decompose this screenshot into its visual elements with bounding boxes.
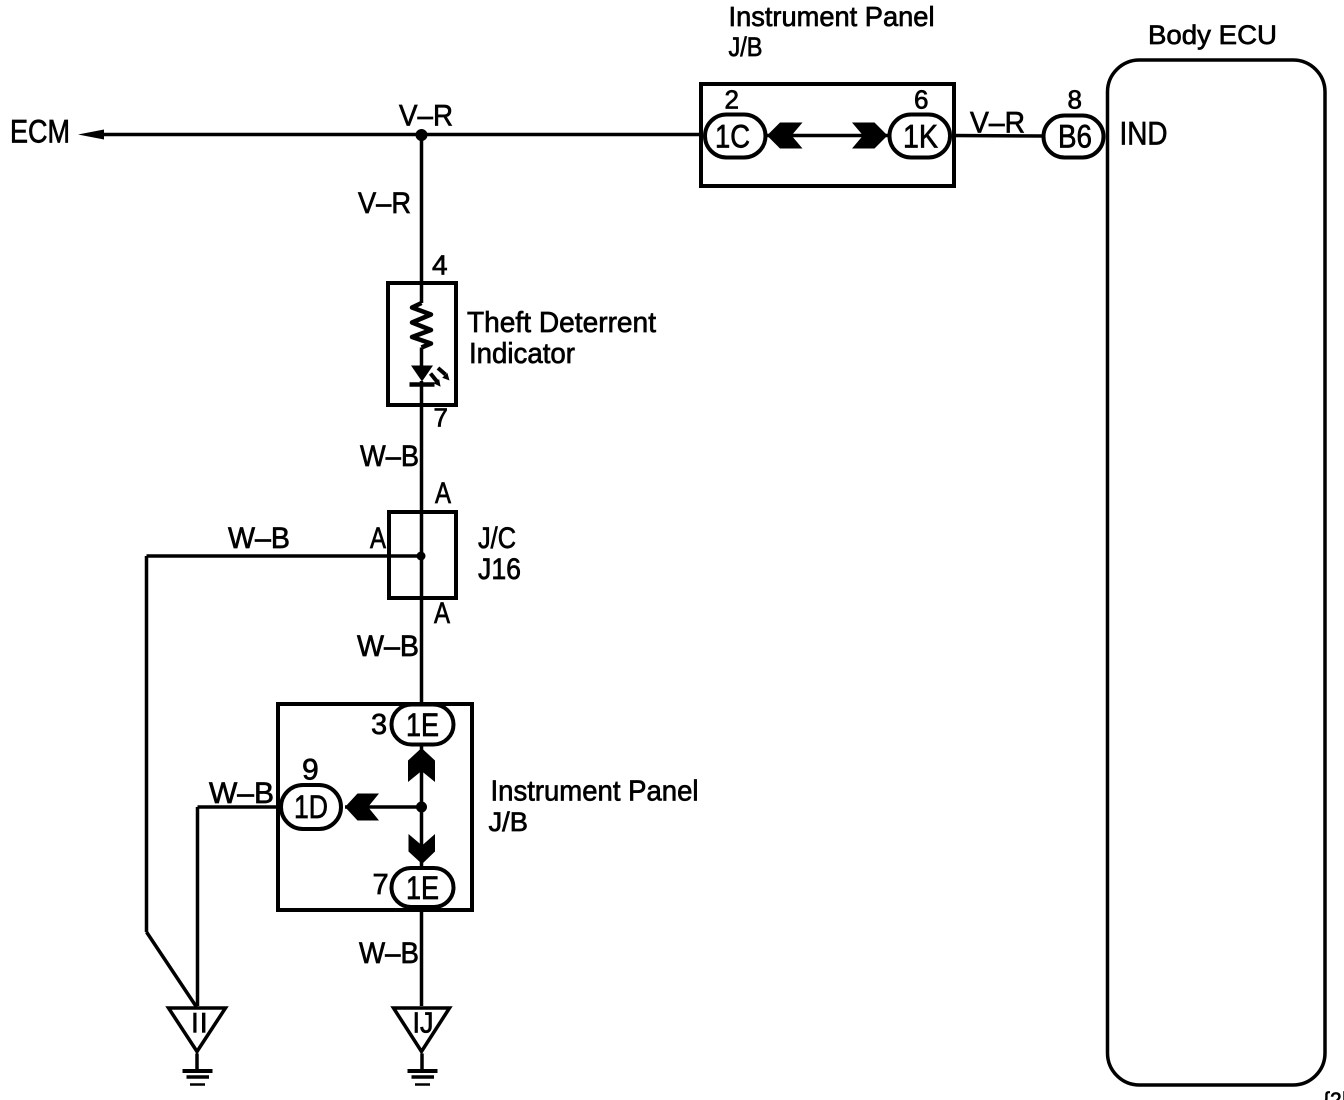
ground IJ bars (408, 1069, 438, 1073)
svg-text:Instrument Panel: Instrument Panel (729, 1, 935, 32)
wire arrow to junction (345, 805, 422, 809)
ECM arrowhead (78, 130, 104, 140)
svg-text:8: 8 (1068, 85, 1082, 115)
svg-text:2: 2 (725, 85, 739, 115)
svg-text:A: A (435, 477, 451, 510)
svg-text:9: 9 (302, 754, 319, 787)
junction connector J/C J16 box (389, 512, 456, 598)
Instrument Panel J/B lower box (278, 704, 472, 910)
wire 1K to B6 V-R (952, 134, 1043, 138)
LED light arrow 1 (431, 374, 438, 382)
svg-text:1E: 1E (406, 707, 439, 743)
svg-text:1D: 1D (294, 789, 328, 825)
wire left branch vertical (145, 556, 149, 932)
svg-text:IJ: IJ (413, 1008, 434, 1040)
connector oval B6 (1044, 116, 1104, 158)
connector oval 1K (890, 115, 951, 158)
Theft Deterrent Indicator box (388, 283, 456, 405)
label II (193, 1013, 196, 1033)
svg-text:3: 3 (371, 709, 387, 741)
svg-text:Theft Deterrent: Theft Deterrent (467, 307, 656, 339)
svg-text:J16: J16 (478, 553, 521, 586)
svg-text:J/B: J/B (489, 807, 529, 837)
svg-text:ECM: ECM (10, 114, 70, 150)
svg-text:B6: B6 (1058, 119, 1092, 155)
wire vertical main lower (420, 381, 424, 1006)
resistor zigzag (412, 303, 431, 348)
svg-text:J/B: J/B (729, 32, 763, 62)
node junction dot J/C (417, 552, 426, 561)
ground II triangle (169, 1008, 226, 1052)
svg-text:V–R: V–R (399, 100, 453, 133)
ground IJ triangle (394, 1008, 450, 1052)
svg-text:A: A (434, 597, 450, 630)
chevron arrow down (409, 834, 436, 864)
Body ECU box (1108, 60, 1326, 1085)
svg-text:W–B: W–B (228, 522, 290, 555)
wire between chevrons top box (767, 134, 888, 138)
wire vertical main upper (420, 135, 424, 304)
svg-text:4: 4 (432, 250, 448, 281)
svg-text:A: A (370, 522, 386, 555)
svg-text:W–B: W–B (359, 937, 419, 970)
wire 1D branch vertical (196, 807, 200, 1006)
ground II stem (195, 1054, 199, 1070)
svg-text:Body ECU: Body ECU (1148, 20, 1277, 50)
wire resistor to LED (420, 348, 424, 367)
LED light arrow 2 (438, 368, 446, 375)
wire 1D branch horizontal (198, 805, 282, 809)
svg-text:6: 6 (914, 85, 928, 115)
connector oval 1C (705, 115, 766, 158)
svg-text:Instrument Panel: Instrument Panel (491, 776, 699, 808)
connector oval 1E top (392, 705, 454, 745)
wire ECM main horizontal V-R (95, 133, 703, 137)
connector oval 1D (281, 785, 341, 829)
svg-text:1C: 1C (715, 119, 750, 155)
svg-text:7: 7 (373, 869, 389, 901)
LED cathode bar (410, 382, 435, 387)
svg-text:V–R: V–R (358, 187, 411, 220)
svg-text:J/C: J/C (478, 522, 516, 555)
node junction dot main wire (416, 129, 428, 141)
LED triangle (411, 366, 433, 382)
svg-text:1E: 1E (406, 870, 439, 906)
connector oval 1E bottom (392, 868, 454, 907)
chevron arrow right top box (852, 123, 888, 149)
chevron arrow left top box (767, 123, 803, 149)
svg-text:Indicator: Indicator (469, 338, 575, 370)
svg-text:W–B: W–B (209, 777, 274, 810)
ground IJ stem (420, 1054, 424, 1070)
Instrument Panel J/B top box (701, 84, 954, 186)
svg-text:W–B: W–B (357, 630, 419, 663)
svg-text:{2|: {2| (1323, 1089, 1344, 1100)
chevron arrow up (408, 748, 435, 782)
ground II bars (183, 1069, 213, 1073)
svg-text:V–R: V–R (970, 107, 1025, 140)
wire left branch diagonal (147, 932, 197, 1007)
svg-text:W–B: W–B (360, 440, 419, 473)
chevron arrow left (345, 794, 379, 821)
svg-text:1K: 1K (903, 119, 938, 155)
svg-text:7: 7 (434, 403, 448, 433)
wire left branch horizontal (147, 554, 422, 558)
node junction dot lower (416, 802, 427, 813)
svg-text:IND: IND (1120, 116, 1168, 152)
